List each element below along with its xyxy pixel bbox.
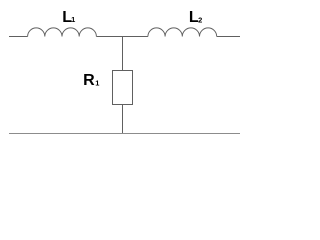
wire: [96, 36, 147, 38]
wire: [9, 36, 28, 38]
svg-text:2: 2: [198, 16, 202, 25]
wire: [217, 36, 240, 38]
svg-text:R: R: [83, 72, 95, 89]
resistor R1: [113, 71, 133, 105]
inductor L2: [148, 28, 217, 37]
wire: [122, 37, 124, 71]
svg-text:1: 1: [95, 79, 99, 88]
wire: [9, 133, 240, 135]
svg-text:1: 1: [71, 15, 75, 24]
wire: [122, 105, 124, 134]
inductor L1: [28, 28, 97, 37]
